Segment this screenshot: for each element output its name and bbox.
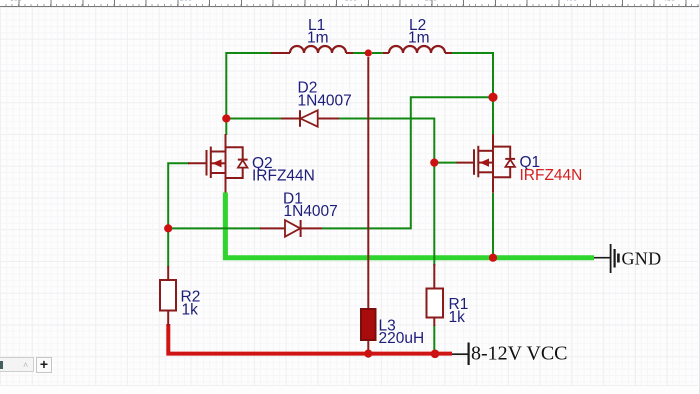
wire top-left from L1 to Q2 drain node (226, 53, 290, 116)
wire left node down to R2 (167, 231, 169, 267)
ground GND symbol (594, 244, 661, 273)
svg-text:1m: 1m (408, 30, 430, 47)
svg-text:1N4007: 1N4007 (284, 203, 338, 220)
transistor Q2 IRFZ44N (188, 134, 315, 193)
node Q1 source on ground bus (489, 254, 497, 262)
wire VCC rail (highlighted net) (168, 324, 452, 354)
wire center junction to L2 (372, 52, 386, 54)
wire Q1 drain node vertical (492, 57, 494, 135)
wire L2 to Q1 drain (449, 53, 493, 135)
svg-text:1k: 1k (182, 302, 199, 319)
svg-text:1N4007: 1N4007 (298, 93, 352, 110)
inductor L1 (271, 17, 353, 53)
svg-text:IRFZ44N: IRFZ44N (252, 168, 315, 185)
wire R1 bottom to VCC rail (433, 325, 435, 351)
node Q1 drain / D1 junction (488, 93, 497, 102)
power flag 8-12V VCC (452, 343, 568, 366)
svg-text:1m: 1m (307, 30, 329, 47)
svg-text:1k: 1k (449, 309, 466, 326)
resistor R1 1k (427, 264, 469, 326)
wire Q1 source to ground bus (492, 193, 494, 255)
svg-text:IRFZ44N: IRFZ44N (520, 167, 583, 184)
wire Q1 gate node to Q1 gate pin (437, 162, 457, 164)
diode D2 1N4007 (281, 80, 352, 127)
inductor L2 (383, 17, 452, 53)
wire Q2 drain node to D2 cathode (226, 119, 281, 136)
wire Q2 gate to left column (168, 163, 189, 225)
node Q2 gate / R2 / D1 junction (164, 224, 172, 232)
svg-text:8-12V VCC: 8-12V VCC (471, 343, 568, 365)
wire D1 cathode to Q1 drain node (322, 97, 490, 228)
wire center junction to L3 (net) (367, 57, 369, 309)
node L1/L2 center junction (365, 49, 372, 56)
node R1 on VCC rail (431, 350, 440, 359)
svg-text:GND: GND (622, 249, 662, 269)
node Q1 gate / D2 junction (430, 159, 438, 167)
wire left node to D1 anode (172, 227, 261, 229)
node L3 on VCC rail (364, 350, 372, 358)
resistor R2 1k (160, 266, 200, 326)
wire L1 to center junction (347, 52, 365, 54)
transistor Q1 IRFZ44N (457, 134, 583, 193)
wire D2 anode to Q1 gate node and down to R1 (338, 119, 434, 267)
diode D1 1N4007 (260, 191, 338, 238)
svg-text:220uH: 220uH (379, 330, 425, 347)
wire ground bus (highlighted net) (225, 193, 594, 258)
inductor L3 220uH (361, 309, 424, 352)
node Q2 drain / D2 cathode junction (222, 114, 230, 122)
